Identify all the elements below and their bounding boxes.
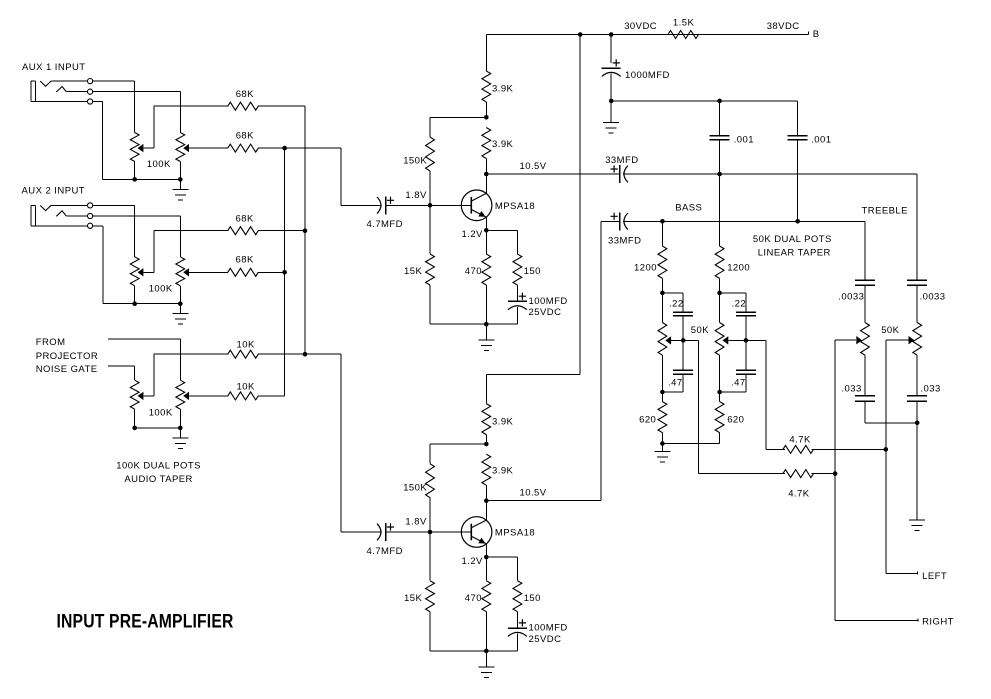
wiper VR5B (886, 336, 914, 344)
svg-text:.001: .001 (811, 135, 831, 146)
wire 4.7K B right (812, 473, 836, 475)
svg-text:TREEBLE: TREEBLE (862, 206, 908, 217)
wire R3 left (154, 230, 228, 232)
svg-text:150: 150 (524, 593, 541, 604)
svg-text:25VDC: 25VDC (529, 634, 562, 645)
wire J1 tip to pot (93, 81, 135, 133)
terminal tick RIGHT (917, 619, 919, 622)
resistor 150 emitter stage1 (513, 254, 522, 285)
wire 620 bottom rail (663, 443, 720, 445)
svg-text:100MFD: 100MFD (529, 623, 568, 634)
svg-text:10K: 10K (237, 339, 255, 350)
wire emitter column stage1 (486, 231, 488, 325)
wire 4.7K A left (766, 449, 785, 451)
junction collector node stage2 (484, 498, 489, 503)
svg-text:68K: 68K (236, 130, 254, 141)
wire R5 right to stage2 input (258, 353, 341, 355)
svg-text:30VDC: 30VDC (624, 21, 657, 32)
junction R13 / RIGHT line (833, 471, 838, 476)
label C9 .47 (731, 378, 746, 389)
wire riser to 33MFD B (601, 221, 620, 223)
label 3.9K top stage2 (492, 416, 514, 427)
svg-text:.22: .22 (732, 298, 747, 309)
svg-text:100K DUAL POTS: 100K DUAL POTS (116, 461, 201, 472)
label R13 4.7K (788, 489, 810, 500)
wire 3.9K to mid node stage2 (486, 435, 488, 445)
junction VR4A wiper node (681, 338, 686, 343)
label R9 1200 (727, 263, 750, 274)
wire mid node to 150K stage1 (430, 118, 487, 138)
label 1.8V stage1 (405, 190, 427, 201)
svg-text:NOISE GATE: NOISE GATE (36, 364, 98, 375)
svg-text:MPSA18: MPSA18 (495, 201, 535, 212)
wire 150K to base stage1 (429, 171, 431, 206)
label 150 stage1 (524, 266, 541, 277)
ground bass (655, 444, 671, 463)
wire .001 A bottom lead (719, 140, 721, 175)
junction bottom rail stage1 (484, 322, 489, 327)
capacitor C10 .0033 (855, 280, 875, 285)
label VR3 100K (149, 408, 173, 419)
label VR1 100K (147, 159, 171, 170)
ground VR3 (173, 428, 189, 449)
wire BASS line (623, 221, 865, 223)
capacitor C4 33MFD (611, 165, 628, 183)
wiper VR5A (835, 336, 862, 344)
wire R8 leads (662, 222, 664, 294)
label C3 .001 (811, 135, 831, 146)
wire emitter column stage2 (486, 557, 488, 651)
junction base node stage2 (428, 530, 433, 535)
junction VR3 pot A bottom (132, 426, 137, 431)
wire R2 left (189, 147, 228, 149)
label C13 .033 (920, 383, 940, 394)
wire VR3A wiper riser (153, 354, 155, 396)
label R4 68K (236, 255, 254, 266)
svg-text:38VDC: 38VDC (767, 21, 800, 32)
svg-text:10.5V: 10.5V (520, 161, 547, 172)
label R12 4.7K (789, 435, 811, 446)
label C6 .22 (669, 298, 684, 309)
junction VR2 pot B bottom (178, 301, 183, 306)
svg-text:4.7K: 4.7K (788, 489, 810, 500)
svg-text:.47: .47 (668, 378, 683, 389)
wire R6 left (189, 395, 228, 397)
label C2 .001 (734, 135, 754, 146)
resistor 150 emitter stage2 (513, 581, 522, 612)
svg-text:470: 470 (465, 266, 482, 277)
wire R5 left (154, 353, 228, 355)
wire treble feed right (916, 174, 918, 280)
label 30VDC (624, 21, 657, 32)
label LEFT (922, 571, 947, 582)
label 150K stage2 (403, 482, 427, 493)
label 25VDC stage2 (529, 634, 562, 645)
label C1 1000MFD (625, 70, 670, 81)
wire cap to bottom rail stage2 (517, 634, 519, 652)
wire J2 ring to pot (93, 216, 181, 257)
svg-text:PROJECTOR: PROJECTOR (36, 351, 98, 362)
label 3.9K bottom stage2 (492, 466, 514, 477)
wire C7 to wiper node (745, 316, 747, 341)
ground treble (909, 423, 925, 531)
svg-text:.033: .033 (841, 383, 861, 394)
wire R4 left (189, 272, 228, 274)
resistor 470 stage2 (482, 581, 491, 612)
wire bass feed to treble A (864, 222, 866, 281)
wire NG input top (108, 339, 181, 380)
wire input to cap stage2 (341, 531, 382, 533)
label 150K stage1 (403, 156, 427, 167)
svg-text:BASS: BASS (675, 202, 702, 213)
svg-text:33MFD: 33MFD (608, 235, 641, 246)
potentiometer VR3A 100K (130, 380, 139, 428)
resistor 150K stage2 (426, 464, 435, 498)
junction bus B top (282, 146, 287, 151)
label 4.7MFD stage2 (367, 546, 403, 557)
wire .001 A top lead (719, 101, 721, 136)
wire input to cap stage1 (341, 205, 382, 207)
wire R6 right (258, 395, 285, 397)
wiper VR1B (183, 144, 189, 152)
wire 10.5V line left (487, 173, 620, 175)
label 3.9K top stage1 (492, 84, 514, 95)
label C12 .033 (841, 383, 861, 394)
svg-text:.0033: .0033 (920, 291, 946, 302)
svg-text:15K: 15K (404, 266, 422, 277)
wire stage2 collector column top (486, 375, 488, 404)
wire R3 right to bus A (258, 230, 305, 232)
wiper VR4B (723, 336, 747, 344)
label C8 .47 (668, 378, 683, 389)
wire VR2A wiper riser (153, 231, 155, 273)
svg-text:68K: 68K (236, 89, 254, 100)
label R6 10K (237, 382, 255, 393)
ground supply (603, 101, 619, 133)
wire bottom rail stage1 (430, 323, 518, 325)
label 1.2V stage1 (462, 229, 484, 240)
svg-text:33MFD: 33MFD (605, 155, 638, 166)
resistor R3 68K (228, 227, 259, 235)
svg-text:LINEAR TAPER: LINEAR TAPER (758, 247, 831, 258)
svg-text:1200: 1200 (727, 263, 750, 274)
svg-text:.47: .47 (731, 378, 746, 389)
svg-text:150K: 150K (403, 156, 427, 167)
resistor 3.9K collector top stage2 (482, 404, 491, 435)
wire .22 B elbow (720, 293, 747, 312)
label NOISE GATE (36, 364, 98, 375)
junction emitter node stage2 (484, 555, 489, 560)
wire R10 leads (662, 392, 664, 444)
wire emitter to 150 stage2 (487, 557, 518, 581)
junction 10.5V line / .001 A (717, 172, 722, 177)
wire .22 A elbow (663, 293, 684, 312)
junction VR3 pot B bottom (178, 426, 183, 431)
svg-text:AUDIO TAPER: AUDIO TAPER (124, 474, 192, 485)
svg-text:25VDC: 25VDC (529, 307, 562, 318)
jack J1 AUX 1 stereo (31, 79, 93, 105)
wire VR3 pots bottom rail (135, 427, 181, 429)
capacitor C11 .0033 (907, 280, 927, 285)
capacitor C2 .001 (710, 136, 730, 140)
junction collector node stage1 (484, 172, 489, 177)
wire VR1A wiper riser (153, 106, 155, 148)
capacitor C13 .033 (907, 396, 927, 402)
label 150 stage2 (524, 593, 541, 604)
wire C8 leads (663, 341, 684, 393)
wire .001 B bottom lead (797, 140, 799, 222)
junction VR4B wiper node (744, 338, 749, 343)
junction R8 bottom (660, 291, 665, 296)
potentiometer VR1A 100K (130, 133, 139, 180)
wire 3.9K to collector stage1 (486, 159, 488, 175)
capacitor 4.7MFD stage2 (377, 523, 394, 541)
label 25VDC stage1 (529, 307, 562, 318)
wire 1000MFD to node (610, 74, 612, 102)
resistor 15K stage2 (426, 581, 435, 612)
wire C13 bottom lead (916, 401, 918, 423)
label C11 .0033 (920, 291, 946, 302)
svg-text:50K: 50K (881, 325, 899, 336)
ground VR2 (173, 304, 189, 325)
svg-text:RIGHT: RIGHT (922, 617, 954, 628)
wiper VR1A (138, 144, 154, 152)
wire .001 B top lead (797, 101, 799, 136)
wire stage2 rail (487, 374, 581, 376)
label R5 10K (237, 339, 255, 350)
wire 68K R1 left (154, 105, 228, 107)
wire C11 to pot (916, 285, 918, 323)
svg-text:100K: 100K (149, 283, 173, 294)
wire treble wiper A down RIGHT (834, 340, 836, 621)
svg-text:50K: 50K (691, 325, 709, 336)
wire supply bus vertical (579, 35, 581, 375)
svg-text:10K: 10K (237, 382, 255, 393)
svg-text:1.8V: 1.8V (405, 190, 427, 201)
label VR2 100K (149, 283, 173, 294)
junction BASS / 1200 A (660, 219, 665, 224)
svg-text:AUX 2 INPUT: AUX 2 INPUT (22, 186, 86, 197)
svg-text:.22: .22 (669, 298, 684, 309)
svg-text:1.8V: 1.8V (405, 517, 427, 528)
wire R4 right to bus B (258, 272, 285, 274)
resistor R12 4.7K (783, 445, 814, 453)
svg-text:50K DUAL POTS: 50K DUAL POTS (753, 234, 832, 245)
label AUX 1 INPUT (22, 62, 86, 73)
wire 10.5V line right (623, 173, 917, 175)
junction VR1 pot B bottom (178, 177, 183, 182)
svg-text:MPSA18: MPSA18 (495, 528, 535, 539)
label PROJECTOR (36, 351, 98, 362)
resistor 150K stage1 (426, 137, 435, 171)
wire R9 leads (719, 174, 721, 293)
wire 3.9K to collector stage2 (486, 485, 488, 501)
transistor Q1 MPSA18 (430, 174, 492, 231)
capacitor C3 .001 (788, 136, 808, 140)
wire top node line (611, 100, 798, 102)
label R8 1200 (634, 263, 657, 274)
label R2 68K (236, 130, 254, 141)
svg-text:100MFD: 100MFD (529, 296, 568, 307)
junction mid node stage2 (484, 442, 489, 447)
label 10.5V stage1 (520, 161, 547, 172)
wire treble wiper B down LEFT (885, 340, 887, 574)
junction .033 common (915, 421, 920, 426)
label B (813, 29, 820, 40)
label R10 620 (639, 414, 656, 425)
label 4.7MFD stage1 (367, 219, 403, 230)
wire VR4B wiper out (746, 341, 766, 450)
resistor R7 1.5K (668, 31, 699, 39)
label 10.5V stage2 (520, 488, 547, 499)
junction 620 bottom / ground (660, 441, 665, 446)
wire R2 right stage1 input (258, 147, 341, 149)
svg-text:INPUT PRE-AMPLIFIER: INPUT PRE-AMPLIFIER (57, 612, 234, 633)
jack J2 AUX 2 stereo (31, 203, 93, 229)
label 100MFD stage1 (529, 296, 568, 307)
capacitor C5 33MFD (611, 213, 628, 231)
wire cap to base stage2 (386, 531, 431, 533)
wire emitter to 150 stage1 (487, 231, 518, 255)
junction 1000MFD bottom (609, 99, 614, 104)
wire cap to bottom rail stage1 (517, 307, 519, 324)
wire mid node to 150K stage2 (430, 444, 487, 464)
svg-text:.033: .033 (920, 383, 940, 394)
svg-text:1.2V: 1.2V (462, 229, 484, 240)
label TREEBLE (862, 206, 908, 217)
svg-text:68K: 68K (236, 213, 254, 224)
ground stage1 (479, 324, 495, 351)
junction R12 / LEFT line (884, 447, 889, 452)
label 1.2V stage2 (462, 556, 484, 567)
label Q1 MPSA18 (495, 201, 535, 212)
potentiometer VR3B 100K (176, 380, 185, 428)
wire 4.7K A right (812, 449, 887, 451)
wire 150 to cap stage1 (517, 285, 519, 301)
svg-text:15K: 15K (404, 593, 422, 604)
label 470 stage2 (465, 593, 482, 604)
label FROM (36, 337, 66, 348)
svg-text:.001: .001 (734, 135, 754, 146)
capacitor C12 .033 (855, 396, 875, 402)
svg-text:1.2V: 1.2V (462, 556, 484, 567)
svg-text:470: 470 (465, 593, 482, 604)
wire J1 sleeve down (93, 102, 103, 180)
wire stage2 output riser (487, 222, 602, 501)
wire bus A vertical (304, 106, 306, 354)
svg-text:B: B (813, 29, 820, 40)
ground stage2 (479, 651, 495, 678)
svg-text:3.9K: 3.9K (492, 416, 514, 427)
junction BASS / .001 B (795, 219, 800, 224)
wire 150K to base stage2 (429, 498, 431, 533)
junction rail / supply bus (578, 32, 583, 37)
label R1 68K (236, 89, 254, 100)
label AUX 2 INPUT (22, 186, 86, 197)
svg-text:68K: 68K (236, 255, 254, 266)
resistor R1 68K (228, 102, 259, 110)
junction bus A bottom (303, 352, 308, 357)
potentiometer VR5B 50K treble (913, 323, 922, 396)
label R11 620 (727, 414, 744, 425)
wire bottom rail stage2 (430, 650, 518, 652)
label R3 68K (236, 213, 254, 224)
wire VR4A wiper out (683, 341, 699, 474)
junction rail / 1000MFD (609, 32, 614, 37)
junction C8 / pot bottom (660, 390, 665, 395)
wire C9 leads (720, 341, 747, 393)
capacitor C6 .22 (673, 312, 693, 316)
label C7 .22 (732, 298, 747, 309)
resistor 3.9K collector bottom stage1 (482, 128, 491, 159)
wire C10 to pot (864, 285, 866, 323)
label 50K DUAL POTS (753, 234, 832, 245)
wire VR1 pots bottom rail (103, 179, 181, 181)
label R7 1.5K (673, 18, 695, 29)
svg-text:100K: 100K (147, 159, 171, 170)
label 15K stage2 (404, 593, 422, 604)
label C10 .0033 (838, 291, 864, 302)
wire 150 to cap stage2 (517, 612, 519, 629)
wire NG input bottom (108, 366, 135, 380)
label C4 33MFD (605, 155, 638, 166)
potentiometer VR1B 100K (176, 133, 185, 180)
wiper VR3B (183, 392, 189, 400)
wire stage1 rail (487, 34, 809, 36)
wire stage1 input riser (340, 148, 342, 206)
svg-text:AUX 1 INPUT: AUX 1 INPUT (22, 62, 86, 73)
label 15K stage1 (404, 266, 422, 277)
potentiometer VR2A 100K (130, 257, 139, 304)
wire LEFT output (886, 573, 918, 575)
svg-text:100K: 100K (149, 408, 173, 419)
wiper VR3A (138, 392, 154, 400)
wire J1 ring to pot (93, 92, 181, 133)
resistor R8 1200 (658, 246, 667, 278)
wire J2 tip to pot (93, 206, 135, 258)
resistor 3.9K collector top stage1 (482, 71, 491, 102)
wire 15K column stage1 (429, 206, 431, 325)
junction bus A / R3 (303, 228, 308, 233)
svg-text:.0033: .0033 (838, 291, 864, 302)
capacitor 4.7MFD stage1 (377, 197, 394, 215)
wire C12 bottom elbow (865, 401, 917, 423)
label AUDIO TAPER (124, 474, 192, 485)
label 470 stage1 (465, 266, 482, 277)
capacitor C7 .22 (736, 312, 756, 316)
svg-text:10.5V: 10.5V (520, 488, 547, 499)
resistor R9 1200 (715, 246, 724, 278)
wire VR2 pots bottom rail (103, 303, 181, 305)
wire stage1 collector column top (486, 35, 488, 72)
resistor R13 4.7K (783, 470, 814, 478)
wire 15K column stage2 (429, 532, 431, 651)
svg-text:3.9K: 3.9K (492, 84, 514, 95)
svg-text:620: 620 (727, 414, 744, 425)
label Q2 MPSA18 (495, 528, 535, 539)
junction base node stage1 (428, 203, 433, 208)
label 50K bass (691, 325, 709, 336)
svg-text:620: 620 (639, 414, 656, 425)
svg-text:4.7MFD: 4.7MFD (367, 219, 403, 230)
wiper VR2B (183, 268, 189, 276)
junction bottom rail stage2 (484, 649, 489, 654)
capacitor C8 .47 (673, 370, 693, 374)
resistor R4 68K (228, 268, 259, 276)
svg-text:1000MFD: 1000MFD (625, 70, 670, 81)
svg-text:4.7MFD: 4.7MFD (367, 546, 403, 557)
wire J2 sleeve down (93, 226, 103, 304)
